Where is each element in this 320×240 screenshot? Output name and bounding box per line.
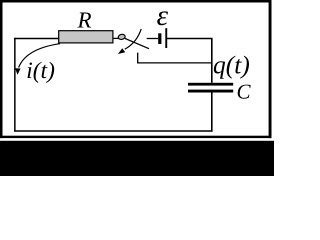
- wire: resistor to switch pivot: [113, 37, 120, 39]
- capacitor C top plate: [188, 83, 233, 86]
- label q(t): [214, 56, 249, 79]
- wire: top-left horizontal (left wire to resistor): [14, 38, 59, 40]
- battery negative plate (short thick): [158, 33, 161, 44]
- switch lever: [125, 38, 149, 48]
- capacitor C bottom plate: [188, 90, 233, 93]
- wire: left vertical: [14, 38, 16, 132]
- wire: bottom horizontal: [14, 130, 212, 132]
- figure frame: [0, 0, 272, 138]
- resistor R: [59, 31, 113, 43]
- label epsilon: [157, 11, 168, 25]
- switch pivot circle: [118, 34, 126, 40]
- wire: switch contact stub down and right to capacitor node: [138, 53, 213, 63]
- wire: right vertical lower (capacitor to bottom wire): [211, 92, 213, 131]
- current arrow (curved): [19, 44, 60, 68]
- wire: battery negative lead: [147, 38, 159, 40]
- switch motion arrow: [125, 29, 141, 49]
- label R: [77, 12, 91, 27]
- battery positive plate (long thin): [165, 28, 167, 48]
- label i(t): [28, 62, 55, 83]
- wire: right vertical upper (battery corner to capacitor): [167, 39, 212, 83]
- label C: [238, 85, 251, 99]
- black band below figure: [0, 141, 274, 176]
